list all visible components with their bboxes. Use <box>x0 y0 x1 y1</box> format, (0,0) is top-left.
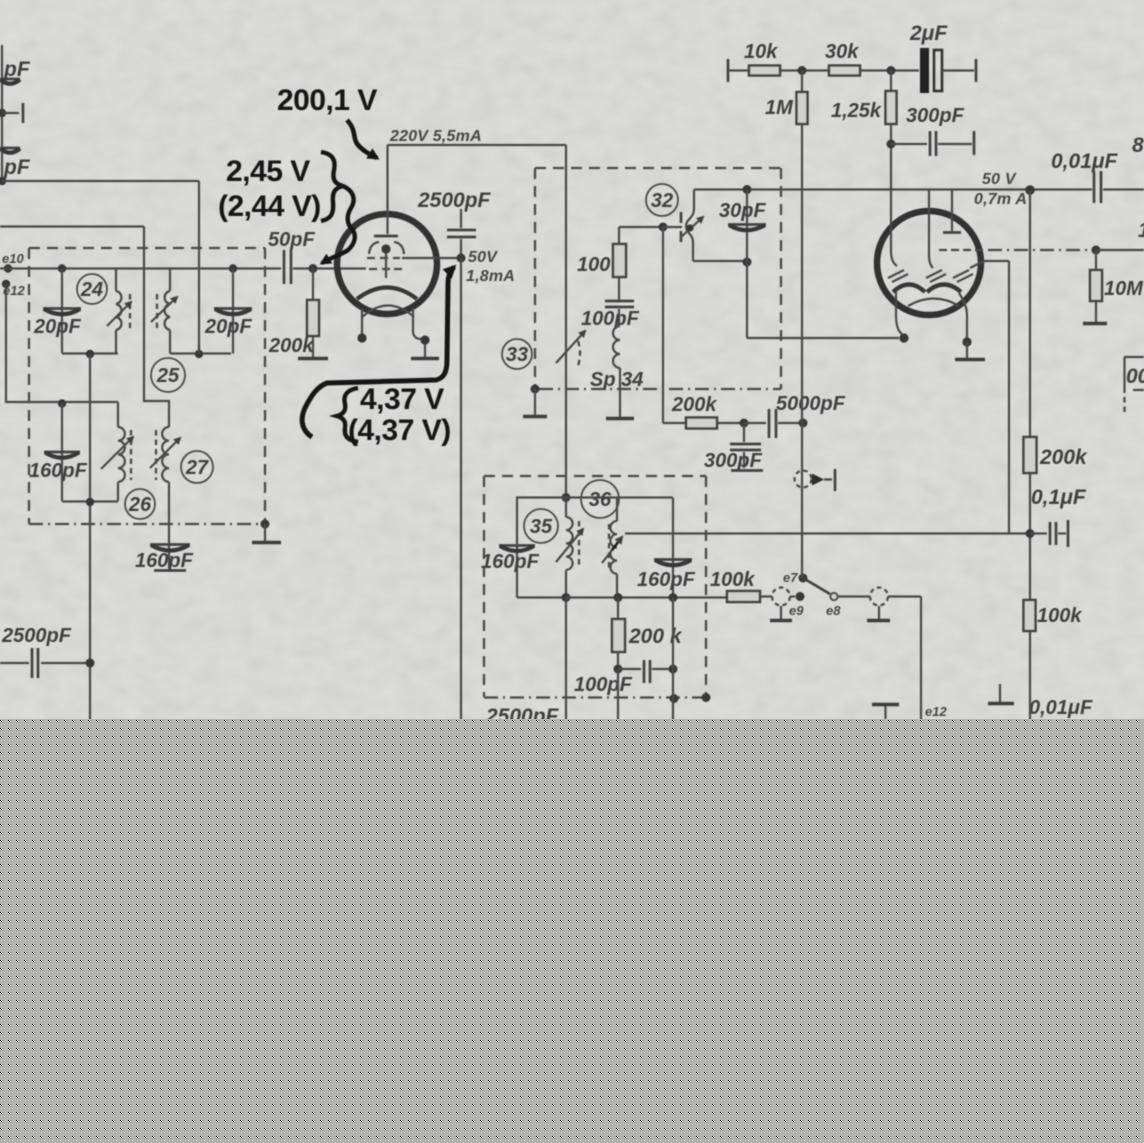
capacitor 5000pF <box>744 409 802 438</box>
node coil36 bottom <box>614 593 623 602</box>
svg-text:20pF: 20pF <box>204 316 252 338</box>
annotation brace { <box>337 388 358 442</box>
svg-text:300pF: 300pF <box>906 105 965 127</box>
wire trimmer bottom <box>693 260 747 262</box>
wire drop x921 <box>920 597 922 723</box>
svg-text:pF: pF <box>3 156 31 179</box>
svg-text:(2,44 V): (2,44 V) <box>218 190 321 223</box>
variable capacitor 33 <box>556 331 585 366</box>
capacitor 160pF (35) <box>499 498 566 598</box>
node 50V <box>457 254 466 263</box>
svg-text:200,1 V: 200,1 V <box>277 84 377 117</box>
svg-text:200k: 200k <box>268 335 314 357</box>
resistor 200k (grid leak) <box>298 269 328 359</box>
svg-text:2μF: 2μF <box>909 22 948 45</box>
capacitor 100pF (box36) <box>618 660 678 683</box>
capacitor pF (upper, cut off) <box>0 79 20 84</box>
wire tank26 bottom <box>62 500 118 502</box>
svg-text:33: 33 <box>506 344 528 366</box>
resistor 200k (box36) <box>612 598 625 674</box>
svg-text:200k: 200k <box>1039 446 1088 469</box>
wire antenna drop to coil 27 <box>144 227 169 428</box>
resistor 10M <box>1083 250 1107 324</box>
svg-text:160pF: 160pF <box>481 551 540 573</box>
halftone dither area <box>0 719 1144 1143</box>
node tank35 top <box>562 493 571 502</box>
svg-text:pF: pF <box>3 58 31 81</box>
svg-text:50pF: 50pF <box>268 229 315 251</box>
node tank35 bottom <box>562 593 571 602</box>
resistor 100k (right column) <box>1024 600 1036 631</box>
svg-text:1,8mA: 1,8mA <box>466 268 515 285</box>
svg-text:100: 100 <box>577 254 610 276</box>
capacitor 50pF <box>284 250 366 284</box>
wire bottom of box35/36 <box>566 596 727 598</box>
node 30pF top <box>743 185 752 194</box>
svg-text:50V: 50V <box>468 249 498 266</box>
node 1M top <box>798 66 807 75</box>
svg-text:160pF: 160pF <box>29 460 88 482</box>
wire drop x673 <box>672 598 674 723</box>
annotation brace and squiggle to grid node <box>321 152 343 221</box>
coil 26 (variable) <box>101 402 133 501</box>
annotation swoosh arrow to 50V node <box>302 267 454 437</box>
svg-text:2500pF: 2500pF <box>417 189 492 212</box>
svg-text:30pF: 30pF <box>719 200 766 222</box>
node on bottom edge <box>670 694 679 703</box>
grid dashes U2 <box>939 249 983 251</box>
resistor 200k (right column) <box>1024 437 1037 473</box>
wire drop x618 <box>617 669 619 722</box>
junction 20pF-24 top <box>58 264 66 272</box>
capacitor 0,01uF (output) <box>1094 171 1144 203</box>
node e10 <box>2 251 24 273</box>
svg-text:50 V: 50 V <box>982 171 1017 188</box>
svg-text:e10: e10 <box>2 251 24 266</box>
ground fragment bottom <box>872 705 899 720</box>
svg-text:27: 27 <box>185 457 209 479</box>
tube U2 (pentode) <box>877 211 981 315</box>
svg-text:0,7m A: 0,7m A <box>974 191 1027 208</box>
resistor 1M <box>797 71 808 125</box>
terminal bar left (10k input) <box>727 59 730 82</box>
dashed box 35-36 <box>484 476 706 698</box>
coil 36 (variable with tap) <box>602 498 622 598</box>
svg-text:0,1μF: 0,1μF <box>1031 486 1087 509</box>
cathode U1 <box>357 288 417 300</box>
resistor 100 <box>613 227 626 300</box>
grid marks U2 <box>888 270 973 282</box>
wire grid2 to edge <box>1096 249 1144 251</box>
svg-text:100k: 100k <box>1037 605 1082 627</box>
wire divider row y70 <box>728 69 749 71</box>
dashed box 24-27 <box>29 248 265 524</box>
capacitor 100pF (33) <box>605 301 634 326</box>
svg-text:(4,37 V): (4,37 V) <box>348 414 451 447</box>
svg-text:4,37 V: 4,37 V <box>360 383 444 416</box>
capacitor 160pF (36) <box>654 498 692 602</box>
corner node box36 <box>702 693 711 702</box>
cathode arcs U2 <box>893 285 961 307</box>
capacitor 300pF (to ground) <box>730 423 763 471</box>
circle 35 <box>524 509 558 543</box>
node 200k-5000pF <box>740 419 749 428</box>
wire drop x566 below box <box>565 598 567 723</box>
wire tank24 bottom <box>62 352 118 354</box>
resistor 10k <box>749 66 780 76</box>
svg-text:300pF: 300pF <box>704 450 763 472</box>
capacitor 160pF (26) <box>44 399 80 501</box>
wire 220V supply <box>388 144 567 146</box>
svg-text:100k: 100k <box>710 569 755 591</box>
svg-text:32: 32 <box>651 190 673 212</box>
resistor 30k <box>829 66 860 76</box>
voltage label 50V 1,8mA <box>466 249 515 285</box>
node trimmer 32 left <box>659 223 668 232</box>
svg-text:160pF: 160pF <box>637 569 696 591</box>
svg-text:e8: e8 <box>826 603 841 618</box>
node e12 <box>2 280 26 298</box>
node 300pF left <box>887 140 896 149</box>
jack socket (pickup, on x802) <box>795 469 836 491</box>
tube U1 (heptode) <box>337 214 437 314</box>
grid wire dash-dot to 10M <box>988 249 1090 251</box>
circle 25 <box>151 358 185 392</box>
node 50V 0,7mA <box>1025 185 1035 195</box>
box fragment right edge <box>1124 357 1144 413</box>
svg-text:0,01μF: 0,01μF <box>1029 697 1093 719</box>
node tank25 bottom <box>195 344 203 358</box>
svg-text:100pF: 100pF <box>581 308 640 330</box>
node grid tube 1 <box>309 264 318 273</box>
svg-text:10k: 10k <box>744 41 778 63</box>
wire top of box35/36 <box>566 496 673 498</box>
wire grid line e10 <box>0 267 281 269</box>
coil 25 (variable) <box>151 269 177 354</box>
svg-text:10M: 10M <box>1104 278 1144 300</box>
circle 26 <box>125 489 155 519</box>
wire long drop x461 <box>460 258 462 722</box>
cathode lead right U2 to ground <box>955 293 985 360</box>
wire antenna line <box>0 225 144 227</box>
wire switch to jack <box>838 595 870 597</box>
wire long drop x566 <box>565 145 567 498</box>
grid lead left U2 <box>891 190 897 266</box>
grid exit right U2 <box>970 261 1009 268</box>
circle 33 <box>502 339 532 369</box>
circle 27 <box>181 451 213 483</box>
svg-text:160pF: 160pF <box>135 550 194 572</box>
capacitor 2500pF (anode) <box>447 209 476 258</box>
svg-text:200k: 200k <box>671 394 717 416</box>
anode lead U2 <box>943 190 961 233</box>
svg-text:5000pF: 5000pF <box>776 393 846 415</box>
capacitor 30pF <box>728 190 766 263</box>
capacitor 2uF (electrolytic) <box>920 48 976 93</box>
coil 27 (variable) <box>150 427 180 482</box>
svg-text:8: 8 <box>1132 134 1144 157</box>
svg-text:1,25k: 1,25k <box>831 100 882 122</box>
svg-text:Sp 34: Sp 34 <box>590 369 643 391</box>
svg-text:20pF: 20pF <box>33 316 81 338</box>
wire to resistor 100 <box>619 226 663 228</box>
svg-text:00: 00 <box>1126 365 1144 388</box>
wire feed line <box>2 180 199 182</box>
wire top-left vertical <box>1 45 3 181</box>
coil Sp34 <box>606 326 634 419</box>
node tank26 bottom <box>86 498 94 506</box>
wire e12 drop <box>6 284 118 402</box>
ground at box 24-27 corner <box>252 520 281 543</box>
svg-text:2,45 V: 2,45 V <box>226 155 310 188</box>
capacitor 160pF (bottom) <box>150 543 190 571</box>
svg-text:e12: e12 <box>925 704 947 719</box>
svg-text:e9: e9 <box>789 603 804 618</box>
svg-text:100pF: 100pF <box>574 674 633 696</box>
voltage label 50V 0,7mA <box>974 171 1027 208</box>
capacitor 0,1uF <box>1030 520 1068 547</box>
capacitor 20pF (25) <box>214 264 252 353</box>
wire <box>860 69 919 71</box>
wire right column x1030 <box>1029 190 1031 722</box>
svg-text:36: 36 <box>589 489 612 511</box>
node top-left <box>0 177 6 185</box>
circle 36 <box>581 480 619 518</box>
wire <box>780 69 829 71</box>
wire feedback x1009 <box>1008 261 1010 534</box>
wire long drop x802 <box>801 124 803 578</box>
capacitor stub to right <box>0 103 23 123</box>
capacitor 300pF (top right) <box>891 131 974 156</box>
grid structure U1 <box>367 242 461 278</box>
resistor 100k (switch row) <box>727 591 772 602</box>
svg-text:1: 1 <box>1138 219 1144 242</box>
jack socket e9 <box>770 588 805 621</box>
wire drop x663 <box>662 227 664 423</box>
cathode lead right U1 to ground <box>411 308 439 359</box>
ground fragment bottom right <box>988 684 1014 704</box>
node box33 corner <box>531 385 540 394</box>
anode lead U1 <box>374 145 398 236</box>
wire long drop x90 <box>89 354 91 722</box>
annotation arrow to 220V wire <box>347 120 377 158</box>
switch lever e7 <box>799 574 838 601</box>
node 1,25k top <box>887 66 896 75</box>
node 5000pF right <box>799 419 808 428</box>
svg-text:2500pF: 2500pF <box>1 625 72 647</box>
capacitor pF (lower, cut off) <box>0 148 20 153</box>
wire anode row y189 <box>694 188 1092 190</box>
svg-text:24: 24 <box>80 279 103 301</box>
trimmer capacitor 32 <box>663 190 703 262</box>
ground below box33 corner <box>523 389 547 417</box>
wire cathode link tube2 <box>747 262 899 338</box>
node 0,1uF <box>1026 529 1035 538</box>
circle 24 <box>77 274 107 304</box>
resistor 200k (horizontal) <box>663 418 744 429</box>
node 30pF bottom <box>743 258 752 267</box>
svg-text:1M: 1M <box>765 97 794 119</box>
coil 35 (variable) <box>556 498 583 598</box>
svg-text:200 k: 200 k <box>628 625 683 648</box>
svg-text:220V 5,5mA: 220V 5,5mA <box>389 128 482 145</box>
wire tap line y534 <box>625 532 1030 534</box>
svg-text:25: 25 <box>156 365 180 387</box>
coil 24 (variable) <box>107 269 131 354</box>
resistor 1,25k <box>886 71 897 191</box>
wire tank25 bottom <box>170 352 231 354</box>
heater U1 <box>362 306 414 318</box>
grid lead mid U2 <box>929 190 933 268</box>
wire coil27 to 160pF <box>168 482 170 543</box>
wire feed drop <box>198 181 200 354</box>
svg-text:0,01μF: 0,01μF <box>1051 150 1119 173</box>
node tank24 bottom <box>86 350 94 358</box>
node grid2 wire <box>1092 246 1101 255</box>
svg-text:30k: 30k <box>825 41 859 63</box>
svg-text:e7: e7 <box>783 570 798 585</box>
dashed box 32-33 <box>535 168 781 389</box>
cathode lead left U1 <box>357 309 366 343</box>
svg-text:35: 35 <box>530 516 553 538</box>
circle 32 <box>646 184 678 216</box>
cathode lead left U2 <box>896 292 909 343</box>
capacitor 20pF (24) <box>43 269 81 354</box>
capacitor 2500pF (left edge) <box>0 648 95 678</box>
svg-text:26: 26 <box>128 494 152 516</box>
jack socket (right) <box>867 588 921 621</box>
